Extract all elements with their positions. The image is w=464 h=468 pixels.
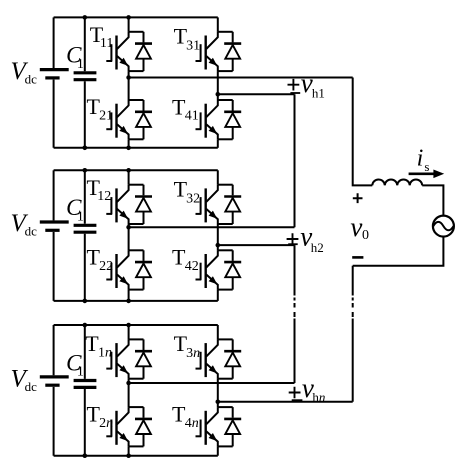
svg-text:hn: hn — [312, 389, 325, 404]
label +vh1 — [288, 79, 300, 91]
node A1: module 1 left leg midpoint — [126, 75, 131, 80]
wire: node Bn output line to load return — [218, 401, 353, 403]
svg-text:21: 21 — [99, 109, 113, 124]
battery Vdc module n — [40, 377, 69, 385]
transistor T41 (IGBT with antiparallel diode) — [196, 100, 242, 139]
wire: T1n emitter stub to node An — [128, 379, 130, 383]
svg-text:dc: dc — [25, 71, 37, 86]
arrow: current direction is — [409, 173, 435, 176]
wire: T11 collector stub — [128, 17, 130, 31]
wire: link B1 down to A2 line — [294, 94, 296, 227]
node: module n top rail junctions — [83, 323, 88, 328]
label +vhn — [289, 387, 301, 399]
wire: module 1 C1 column — [84, 17, 86, 71]
wire: node A2 output line — [129, 226, 295, 228]
wire: T21 collector stub from node A1 — [128, 78, 130, 101]
transistor T21 (IGBT with antiparallel diode) — [106, 100, 152, 139]
node B1: module 1 right leg midpoint — [216, 92, 221, 97]
battery Vdc module 1 — [40, 70, 69, 78]
svg-text:32: 32 — [186, 191, 200, 206]
wire: T3n collector stub — [217, 325, 219, 339]
transistor T32 (IGBT with antiparallel diode) — [196, 185, 242, 224]
svg-text:dc: dc — [25, 379, 37, 394]
capacitor C1 module 1 — [74, 73, 97, 80]
transistor T11 (IGBT with antiparallel diode) — [106, 32, 152, 71]
svg-text:41: 41 — [185, 109, 199, 124]
transistor T1n (IGBT with antiparallel diode) — [106, 339, 152, 378]
label + of v0 — [353, 193, 363, 203]
svg-text:1: 1 — [77, 209, 84, 224]
wire: T2n emitter stub — [128, 446, 130, 455]
svg-text:v: v — [301, 68, 313, 98]
minus mark of vh2 on wire — [288, 243, 298, 245]
node B2: module 2 right leg midpoint — [216, 243, 221, 248]
wire: link B2 down to An line (solid part below break) — [294, 319, 296, 384]
wire: T22 emitter stub — [128, 290, 130, 301]
wire: T22 collector stub from node A2 — [128, 227, 130, 250]
wire: module 2 C1 column — [84, 170, 86, 223]
node: module 1 bottom rail junctions — [83, 146, 88, 151]
minus mark of vh1 on wire — [290, 92, 300, 94]
wire: link B2 down toward An line (solid part above break) — [294, 245, 296, 295]
minus mark of vhn on wire — [292, 399, 303, 401]
wire: T41 emitter stub — [217, 139, 219, 148]
wire: T41 collector stub from node B1 — [217, 94, 219, 100]
svg-text:s: s — [424, 159, 429, 174]
wire: T21 emitter stub — [128, 139, 130, 148]
svg-text:h2: h2 — [311, 240, 324, 255]
label +vh2 — [287, 233, 299, 245]
svg-text:3n: 3n — [186, 346, 200, 361]
wire: module 1 bottom rail — [54, 147, 218, 149]
wire: node B2 output line — [218, 244, 295, 246]
node An: module n left leg midpoint — [126, 381, 131, 386]
svg-text:11: 11 — [100, 36, 113, 51]
wire: T1n collector stub — [128, 325, 130, 339]
node: module 2 top rail junctions — [83, 168, 88, 173]
svg-text:v: v — [350, 212, 362, 242]
wire: T2n collector stub from node An — [128, 383, 130, 407]
wire: T32 emitter down to node B2 — [217, 224, 219, 245]
wire: module n top rail — [54, 324, 218, 326]
wire: load return vertical (solid part above break) — [352, 266, 354, 296]
capacitor C1 module 2 — [74, 225, 97, 232]
svg-text:1: 1 — [77, 57, 84, 72]
svg-text:1n: 1n — [98, 346, 112, 361]
wire: dash-dot continuation marks on load return — [352, 298, 354, 318]
node A2: module 2 left leg midpoint — [126, 225, 131, 230]
transistor T3n (IGBT with antiparallel diode) — [196, 339, 242, 378]
wire: node B1 output line — [218, 93, 295, 95]
wire: T31 collector stub — [217, 17, 219, 31]
svg-text:2n: 2n — [99, 416, 113, 431]
wire: T31 emitter down to node B1 — [217, 71, 219, 94]
battery Vdc module 2 — [40, 222, 69, 230]
transistor T31 (IGBT with antiparallel diode) — [196, 32, 242, 71]
svg-text:42: 42 — [185, 259, 199, 274]
svg-text:4n: 4n — [185, 416, 199, 431]
wire: T42 collector stub from node B2 — [217, 245, 219, 250]
wire: node An output line — [129, 382, 295, 384]
wire: T42 emitter stub — [217, 290, 219, 301]
transistor T12 (IGBT with antiparallel diode) — [106, 185, 152, 224]
wire: AC source down to bottom-right corner and left — [353, 236, 444, 265]
transistor T42 (IGBT with antiparallel diode) — [196, 250, 242, 289]
wire: T3n emitter down to node Bn — [217, 379, 219, 402]
svg-text:12: 12 — [97, 189, 111, 204]
svg-text:dc: dc — [25, 223, 37, 238]
svg-text:31: 31 — [186, 38, 200, 53]
wire: T11 emitter stub to node A1 — [128, 71, 130, 77]
wire: T4n emitter stub — [217, 446, 219, 455]
inductor Ls (four arc humps) — [372, 179, 422, 185]
transistor T4n (IGBT with antiparallel diode) — [196, 407, 242, 446]
wire: T12 emitter stub to node A2 — [128, 224, 130, 227]
wire: module 1 top rail — [54, 16, 218, 18]
node: module 2 bottom rail junctions — [83, 299, 88, 304]
node: module 1 top rail junctions — [83, 15, 88, 20]
wire: module 2 top rail — [54, 169, 218, 171]
node Bn: module n right leg midpoint — [216, 400, 221, 405]
AC source (circle with sine wave) — [433, 216, 454, 237]
wire: T4n collector stub from node Bn — [217, 402, 219, 407]
wire: module n C1 column — [84, 325, 86, 379]
wire: inductor to top-right corner and down to AC source — [422, 185, 443, 215]
transistor T2n (IGBT with antiparallel diode) — [106, 407, 152, 446]
capacitor C1 module n — [74, 381, 97, 388]
svg-text:i: i — [417, 145, 424, 171]
transistor T22 (IGBT with antiparallel diode) — [106, 250, 152, 289]
svg-text:0: 0 — [362, 228, 369, 243]
wire: T12 collector stub — [128, 170, 130, 184]
wire: module n left (battery) column — [53, 325, 55, 375]
wire: A1 line corner down to inductor — [353, 78, 373, 186]
wire: dash-dot continuation marks on B2-An link — [294, 298, 296, 318]
wire: module 2 bottom rail — [54, 300, 218, 302]
svg-text:22: 22 — [99, 259, 113, 274]
wire: module 1 left (battery) column — [53, 17, 55, 68]
svg-text:1: 1 — [77, 365, 84, 380]
wire: module 2 left (battery) column — [53, 170, 55, 220]
svg-text:h1: h1 — [312, 85, 325, 100]
wire: load return vertical down to Bn line (solid part below break) — [352, 319, 354, 402]
wire: module n bottom rail — [54, 455, 218, 457]
wire: node A1 output line to load corner — [129, 77, 353, 79]
node: module n bottom rail junctions — [83, 453, 88, 458]
label minus of v0 — [352, 256, 363, 259]
wire: T32 collector stub — [217, 170, 219, 184]
